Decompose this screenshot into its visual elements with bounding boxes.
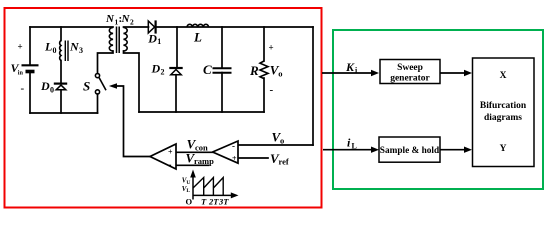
output minus — [270, 84, 274, 96]
label 2T — [208, 197, 219, 207]
svg-text:2: 2 — [130, 18, 134, 27]
ramp graph y-axis — [192, 176, 194, 200]
svg-text:in: in — [18, 70, 24, 77]
wire Vcon — [176, 151, 213, 153]
diode D0 — [54, 84, 67, 90]
inductor L0 with winding N3 — [60, 41, 61, 61]
wire sweep to bifurcation — [440, 72, 466, 74]
transformer T1 primary winding N1 — [109, 28, 113, 52]
label 3T — [218, 197, 229, 207]
svg-text:T: T — [201, 197, 207, 207]
wire output sense vertical — [312, 27, 314, 145]
label L — [193, 29, 202, 44]
wire D2 to rail — [175, 75, 177, 112]
svg-text:C: C — [203, 62, 212, 77]
svg-text:S: S — [83, 78, 90, 93]
wire bottom rail secondary — [139, 111, 264, 113]
wire R to rail — [263, 78, 265, 112]
wire L0 branch top — [60, 27, 62, 41]
ramp graph x-axis — [193, 194, 231, 196]
wire Vo to comparator — [238, 144, 313, 146]
label R — [249, 63, 259, 78]
arrow to switch — [109, 83, 117, 89]
transformer core — [117, 27, 120, 54]
svg-text:ramp: ramp — [194, 156, 214, 166]
wire secondary coil bottom down — [124, 51, 140, 112]
error amp minus input — [232, 141, 235, 151]
svg-text:2T: 2T — [208, 197, 219, 207]
svg-text:X: X — [500, 71, 507, 81]
diode D2 — [169, 68, 182, 75]
svg-text:L: L — [193, 29, 202, 44]
battery Vin — [22, 65, 39, 71]
wire primary coil bottom to switch — [98, 51, 114, 73]
svg-text:0: 0 — [50, 86, 54, 95]
svg-text:O: O — [186, 197, 193, 207]
svg-text:generator: generator — [390, 73, 430, 83]
svg-text:D: D — [151, 61, 161, 75]
svg-text:diagrams: diagrams — [484, 113, 522, 123]
block Bifurcation diagrams — [473, 58, 535, 167]
wire Vref — [238, 157, 268, 159]
svg-text:3T: 3T — [218, 197, 229, 207]
block Sweep generator — [380, 60, 440, 84]
svg-text:+: + — [18, 42, 23, 52]
wire D2 branch top — [176, 27, 178, 67]
op-amp comparator U1 — [150, 144, 176, 169]
label L0 — [44, 40, 57, 56]
battery minus — [21, 83, 25, 95]
wire iL arrow — [323, 149, 372, 151]
wire R branch top — [263, 27, 265, 61]
svg-text:-: - — [270, 84, 274, 96]
wire switch bottom — [97, 94, 99, 113]
svg-text:-: - — [232, 141, 235, 151]
label VL — [182, 185, 191, 194]
wire C branch top — [221, 27, 223, 68]
label Vcon — [187, 137, 208, 153]
svg-text:N: N — [105, 13, 115, 25]
svg-text:L: L — [186, 188, 190, 194]
label C — [203, 62, 212, 77]
svg-text:Y: Y — [500, 144, 507, 154]
wire Ki arrow — [322, 72, 372, 74]
output plus — [269, 43, 274, 53]
svg-text:con: con — [195, 142, 208, 152]
label N1:N2 — [105, 13, 134, 27]
svg-text:Bifurcation: Bifurcation — [480, 101, 527, 111]
transformer secondary winding N2 — [124, 28, 128, 52]
switch S — [95, 74, 106, 95]
label Bifurcation diagrams — [480, 101, 527, 123]
svg-text:Sample & hold: Sample & hold — [380, 146, 440, 156]
op-amp error amp U2 — [213, 141, 238, 163]
wire top rail primary — [30, 26, 113, 28]
wire Vramp — [176, 164, 209, 166]
label D2 — [151, 61, 165, 76]
label VU — [182, 177, 191, 186]
svg-text:o: o — [280, 135, 284, 145]
svg-text:+: + — [232, 154, 237, 163]
svg-text:+: + — [269, 43, 274, 53]
comparator minus input — [169, 159, 172, 169]
wire C to rail — [221, 73, 223, 112]
label S — [83, 78, 90, 93]
label Vo sense — [272, 130, 285, 146]
svg-text:N: N — [121, 13, 131, 25]
inductor L — [187, 24, 209, 27]
wire secondary top rail to D1 — [124, 26, 149, 28]
svg-text:L: L — [352, 142, 357, 151]
svg-text:+: + — [168, 148, 173, 157]
green analysis box — [333, 30, 543, 189]
svg-text:Sweep: Sweep — [397, 63, 423, 73]
label Vo output — [270, 63, 283, 79]
svg-text:-: - — [169, 159, 172, 169]
error amp plus input — [232, 154, 237, 163]
label O — [186, 197, 193, 207]
capacitor C — [213, 68, 232, 73]
block Sample and hold — [379, 137, 440, 162]
svg-text:ref: ref — [279, 157, 289, 167]
label D0 — [40, 79, 54, 95]
wire D0 to rail — [60, 90, 62, 113]
svg-text:3: 3 — [79, 46, 83, 55]
svg-text:D: D — [40, 79, 50, 93]
svg-text:0: 0 — [53, 46, 57, 55]
ramp waveform — [193, 178, 223, 196]
core bars N3 — [65, 41, 68, 62]
label Y — [500, 144, 507, 154]
svg-text:o: o — [278, 69, 282, 79]
svg-text:-: - — [21, 83, 25, 95]
wire bottom rail primary — [30, 112, 98, 114]
label X — [500, 71, 507, 81]
label T — [201, 197, 207, 207]
label Vramp — [186, 150, 215, 166]
comparator plus input — [168, 148, 173, 157]
svg-text:2: 2 — [161, 68, 165, 77]
wire battery branch top — [29, 27, 31, 64]
svg-text:L: L — [44, 40, 52, 54]
svg-text:1: 1 — [157, 37, 161, 46]
wire D1 to corner — [156, 26, 314, 28]
resistor R — [260, 61, 268, 79]
label Vref — [270, 151, 289, 167]
svg-text:U: U — [186, 180, 190, 186]
wire battery branch bottom — [29, 72, 31, 113]
battery plus — [18, 42, 23, 52]
label Vin — [11, 61, 24, 77]
svg-text:D: D — [147, 31, 157, 45]
diode D1 — [148, 20, 155, 33]
wire comparator output to switch arrow — [117, 86, 151, 157]
svg-text:R: R — [249, 63, 259, 78]
svg-text:K: K — [345, 60, 355, 74]
label Ki — [345, 60, 358, 75]
label N3 — [69, 40, 83, 56]
label D1 — [147, 31, 161, 46]
label iL — [347, 136, 357, 151]
wire sample to bifurcation — [441, 149, 467, 151]
red converter box — [5, 8, 322, 208]
wire L0 to D0 — [60, 61, 62, 83]
